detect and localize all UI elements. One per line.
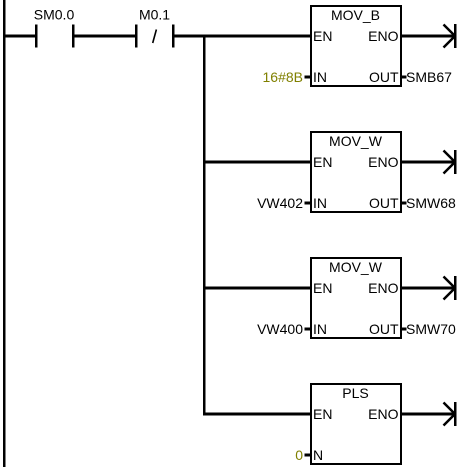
contact M0.1 (normally closed) [135,7,175,48]
block U3 MOV_W [310,257,402,339]
svg-text:SMW70: SMW70 [406,321,456,337]
vertical branch wire [203,35,206,416]
svg-text:VW400: VW400 [257,321,303,337]
block U4 PLS [310,383,402,465]
svg-text:OUT: OUT [369,321,399,337]
wire U2 IN tick [305,202,311,205]
wire U2 OUT tick [402,202,407,205]
left power rail [3,0,6,467]
wire U3 IN tick [305,328,311,331]
continuation arrow 2 [444,150,457,174]
svg-text:ENO: ENO [368,406,398,422]
wire U4 ENO to arrow [402,413,455,416]
svg-text:IN: IN [313,321,327,337]
svg-text:EN: EN [313,280,332,296]
svg-text:M0.1: M0.1 [139,7,170,23]
wire branch to U2 EN [205,161,310,164]
svg-text:SMW68: SMW68 [406,195,456,211]
svg-text:EN: EN [313,28,332,44]
svg-text:MOV_W: MOV_W [329,259,383,275]
svg-text:ENO: ENO [368,154,398,170]
svg-text:EN: EN [313,406,332,422]
svg-text:0: 0 [295,447,303,463]
continuation arrow 3 [444,276,457,300]
svg-text:ENO: ENO [368,280,398,296]
svg-text:ENO: ENO [368,28,398,44]
block U1 MOV_B [310,5,402,87]
wire branch to U4 EN [205,413,310,416]
wire M0.1 to U1 EN [175,35,311,38]
svg-text:N: N [313,447,323,463]
wire U4 N tick [305,454,311,457]
wire U3 OUT tick [402,328,407,331]
svg-text:IN: IN [313,195,327,211]
continuation arrow 4 [444,402,457,426]
contact SM0.0 (normally open) [34,7,75,48]
svg-text:16#8B: 16#8B [263,69,303,85]
wire U2 ENO to arrow [402,161,455,164]
wire U1 ENO to arrow [402,35,455,38]
wire U1 IN tick [305,76,311,79]
block U2 MOV_W [310,131,402,213]
continuation arrow 1 [444,24,457,48]
svg-text:VW402: VW402 [257,195,303,211]
wire rail to contact SM0.0 [3,35,35,38]
svg-text:MOV_B: MOV_B [331,7,380,23]
wire U1 OUT tick [402,76,407,79]
wire branch to U3 EN [205,287,310,290]
svg-text:OUT: OUT [369,195,399,211]
svg-text:EN: EN [313,154,332,170]
wire SM0.0 to M0.1 [75,35,136,38]
svg-text:IN: IN [313,69,327,85]
svg-text:SMB67: SMB67 [406,69,452,85]
svg-text:SM0.0: SM0.0 [34,7,75,23]
svg-text:PLS: PLS [342,385,368,401]
svg-text:OUT: OUT [369,69,399,85]
wire U3 ENO to arrow [402,287,455,290]
svg-text:MOV_W: MOV_W [329,133,383,149]
